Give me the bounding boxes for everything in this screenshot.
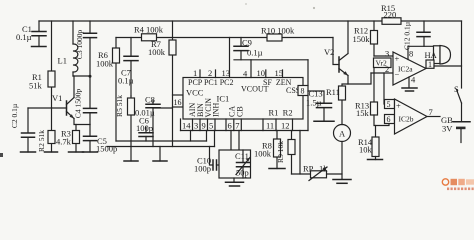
svg-text:1500p: 1500p — [96, 144, 117, 154]
ground under R5 — [124, 160, 138, 162]
svg-text:A: A — [339, 129, 346, 139]
svg-text:1: 1 — [193, 68, 197, 78]
svg-text:3: 3 — [385, 49, 389, 59]
IC1 bottom pin boxes — [181, 119, 309, 131]
resistor R9 — [276, 131, 295, 175]
capacitor C1 — [16, 21, 46, 47]
capacitor C3 — [75, 21, 97, 76]
svg-text:6: 6 — [387, 115, 391, 124]
svg-text:IC2a: IC2a — [398, 65, 413, 74]
trimmer box — [219, 150, 251, 178]
svg-text:R9 10k: R9 10k — [276, 141, 285, 163]
svg-text:100k: 100k — [254, 149, 272, 159]
wire emitter to pin2 — [348, 73, 371, 84]
inductor L1 — [58, 21, 78, 76]
resistor R5 — [115, 95, 135, 161]
svg-text:5: 5 — [209, 121, 213, 131]
svg-text:CB: CB — [236, 106, 245, 117]
svg-text:0.1µ: 0.1µ — [247, 48, 263, 58]
svg-text:C8: C8 — [145, 95, 155, 105]
ground stub mid — [153, 147, 167, 162]
svg-text:100p: 100p — [194, 164, 211, 174]
svg-text:1.5µ: 1.5µ — [306, 98, 322, 108]
svg-text:R5 51k: R5 51k — [115, 95, 124, 117]
wire pins 6 7 drops — [231, 131, 239, 151]
capacitor C11 trimmer — [235, 150, 250, 178]
svg-text:C11: C11 — [235, 151, 249, 161]
scan artifact left edge — [313, 7, 315, 9]
svg-text:2: 2 — [208, 68, 212, 78]
svg-text:12: 12 — [281, 121, 290, 131]
svg-text:R1 R2: R1 R2 — [269, 108, 293, 118]
ground under C5 — [83, 151, 98, 153]
resistor R10 — [261, 26, 295, 42]
ground under C13 — [314, 120, 334, 122]
svg-text:13: 13 — [222, 68, 231, 78]
resistor R13 — [355, 68, 378, 119]
ground under trimmer box — [226, 178, 244, 186]
resistor R1 — [29, 21, 55, 108]
node Vr2 — [371, 49, 393, 75]
ground under R8 — [269, 168, 285, 170]
svg-text:11: 11 — [266, 121, 274, 131]
svg-text:3V: 3V — [442, 124, 453, 134]
resistor R12 — [353, 21, 378, 56]
svg-text:100k: 100k — [96, 59, 114, 69]
svg-text:150k: 150k — [353, 34, 371, 44]
capacitor C8 — [135, 95, 160, 147]
wire pin13 to R10 bus — [229, 38, 231, 78]
pin 6 box — [385, 115, 395, 125]
capacitor C4 — [74, 76, 97, 125]
wire R4-R10 bus — [116, 37, 333, 39]
wire bus2 — [107, 146, 215, 148]
resistor R4 — [134, 25, 164, 41]
watermark — [442, 179, 474, 190]
svg-text:14: 14 — [182, 121, 191, 131]
resistor R11 — [326, 76, 348, 125]
wire VCC feed — [153, 107, 173, 147]
svg-text:1k: 1k — [319, 164, 328, 174]
resistor R15 — [381, 3, 401, 24]
svg-text:R2 51k: R2 51k — [37, 130, 46, 152]
resistor R14 — [358, 126, 379, 160]
svg-text:51k: 51k — [29, 81, 43, 91]
svg-text:V2: V2 — [324, 47, 334, 57]
svg-text:3: 3 — [194, 121, 198, 131]
svg-text:C9: C9 — [242, 38, 252, 48]
svg-text:15k: 15k — [356, 108, 370, 118]
capacitor C12 — [403, 21, 431, 50]
svg-text:IC2b: IC2b — [399, 115, 414, 124]
speaker HA — [425, 46, 451, 65]
svg-text:+: + — [395, 54, 400, 64]
svg-text:INH: INH — [212, 103, 221, 117]
resistor R3 — [56, 125, 80, 153]
svg-text:PCP PC1 PC2: PCP PC1 PC2 — [188, 78, 234, 87]
svg-text:IC1: IC1 — [217, 94, 230, 104]
wire emitter junction — [74, 119, 90, 125]
svg-text:R10 100k: R10 100k — [261, 26, 295, 36]
svg-text:4.7k: 4.7k — [56, 137, 72, 147]
wire top supply rail — [39, 20, 462, 22]
svg-text:15: 15 — [275, 68, 284, 78]
svg-text:C3 1000p: C3 1000p — [75, 30, 84, 60]
svg-text:V1: V1 — [52, 93, 62, 103]
wire speaker top — [408, 45, 436, 48]
wire pin drops — [191, 131, 215, 147]
svg-text:R4 100k: R4 100k — [134, 25, 164, 35]
ground under IC2a — [402, 88, 417, 91]
capacitor C10 — [194, 147, 219, 174]
svg-text:100k: 100k — [148, 47, 166, 57]
op-amp IC2b — [395, 99, 441, 134]
IC op-amp U1 body — [183, 78, 303, 120]
wire CSS drop — [307, 60, 309, 131]
resistor R2 — [37, 108, 55, 152]
pin 8 box — [298, 86, 308, 96]
ground under R2 — [45, 151, 58, 153]
svg-text:S: S — [454, 84, 459, 94]
svg-text:6: 6 — [228, 121, 232, 131]
transistor V2 — [324, 21, 348, 76]
pin 16 box VCC — [173, 95, 184, 107]
transistor V1 — [28, 93, 74, 119]
potentiometer RP — [292, 164, 343, 181]
wire bus1 — [116, 140, 207, 142]
capacitor C2 — [10, 103, 35, 152]
svg-text:100p: 100p — [136, 123, 153, 133]
svg-text:1: 1 — [428, 60, 432, 69]
svg-text:5: 5 — [387, 100, 391, 109]
svg-text:C4 1500p: C4 1500p — [74, 89, 83, 119]
battery GB — [441, 115, 470, 143]
svg-text:VCC: VCC — [186, 88, 204, 98]
resistor R6 — [96, 38, 120, 142]
svg-text:10: 10 — [257, 68, 266, 78]
wire tank junction — [73, 75, 92, 98]
svg-text:VCOUT: VCOUT — [241, 85, 269, 94]
svg-text:220: 220 — [384, 10, 397, 20]
op-amp IC2a — [393, 46, 426, 87]
wire speaker to rail — [434, 65, 462, 67]
wire pin2 to pin5 — [383, 73, 386, 104]
IC1 top pin numbers — [193, 68, 283, 79]
svg-text:HA: HA — [425, 50, 438, 60]
svg-text:16: 16 — [174, 98, 182, 107]
svg-text:RP: RP — [303, 164, 314, 174]
resistor R8 — [254, 131, 281, 169]
svg-text:L1: L1 — [58, 56, 67, 66]
capacitor C13 — [306, 89, 332, 122]
capacitor C7 — [118, 38, 138, 97]
svg-text:8: 8 — [301, 87, 305, 96]
capacitor C9 — [234, 38, 263, 60]
svg-text:+: + — [396, 101, 401, 111]
svg-text:2: 2 — [385, 64, 389, 74]
wire VCOUT link — [234, 60, 308, 78]
meter A — [334, 125, 351, 180]
capacitor C6 — [136, 116, 153, 142]
resistor R7 — [148, 21, 176, 95]
pin 1 box — [426, 60, 434, 69]
svg-text:7: 7 — [429, 107, 433, 117]
switch S — [454, 21, 462, 122]
pin 5 box — [385, 100, 395, 110]
svg-text:0.1µ: 0.1µ — [118, 76, 134, 86]
svg-text:C2 0.1µ: C2 0.1µ — [10, 103, 19, 128]
svg-text:50p: 50p — [236, 168, 249, 178]
ground under R14 — [368, 159, 383, 161]
ground under meter — [333, 180, 351, 184]
svg-text:R11: R11 — [326, 87, 340, 97]
svg-text:10k: 10k — [359, 145, 373, 155]
wire pin12 drop — [299, 131, 301, 175]
svg-text:9: 9 — [202, 121, 206, 131]
wire R13 to pin6 — [374, 115, 389, 126]
svg-text:7: 7 — [235, 121, 239, 131]
ground under C2 — [21, 151, 36, 153]
ground under R3 — [69, 151, 84, 153]
capacitor C5 — [84, 125, 118, 154]
svg-text:0.1µ: 0.1µ — [16, 32, 32, 42]
